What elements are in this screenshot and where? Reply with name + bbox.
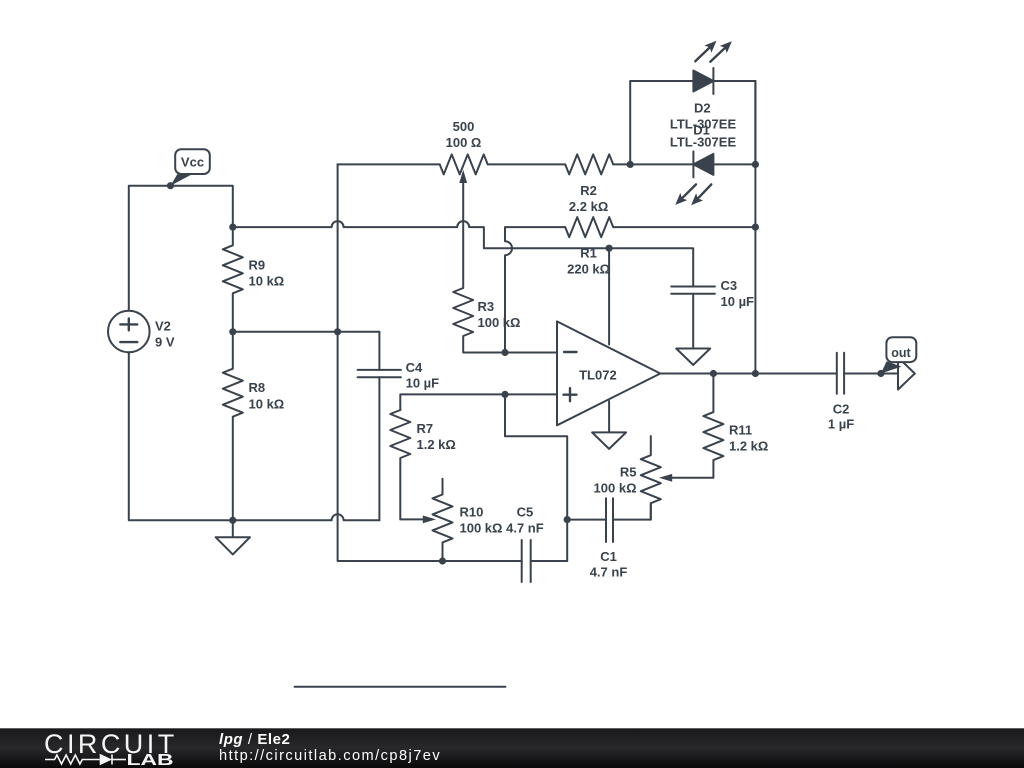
resistor R2 (565, 154, 613, 174)
svg-text:1.2 kΩ: 1.2 kΩ (729, 439, 768, 454)
wire right feedback vertical (754, 81, 756, 374)
svg-text:10 µF: 10 µF (721, 294, 755, 309)
potentiometer 500 100ohm (440, 154, 488, 288)
resistor R7 (390, 410, 410, 519)
CircuitLab logo (44, 729, 178, 768)
svg-text:100 Ω: 100 Ω (446, 135, 482, 150)
svg-text:R9: R9 (249, 257, 266, 272)
svg-text:R7: R7 (417, 421, 434, 436)
wire D2 branch (630, 81, 693, 164)
wire plus input (400, 394, 557, 410)
wire mid rail to C4 (233, 332, 380, 370)
svg-text:4.7 nF: 4.7 nF (590, 565, 628, 580)
svg-text:R11: R11 (729, 423, 752, 438)
footer bar (0, 728, 1024, 768)
svg-text:R8: R8 (249, 380, 266, 395)
voltage source V2 (108, 311, 150, 353)
node D junction left (627, 161, 634, 168)
svg-text:500: 500 (453, 119, 475, 134)
svg-text:C4: C4 (406, 360, 423, 375)
svg-text:TL072: TL072 (579, 368, 617, 383)
capacitor C5 (522, 540, 568, 582)
svg-text:R3: R3 (478, 299, 495, 314)
node ground junction (229, 517, 236, 524)
node R10 bottom junction (439, 557, 446, 564)
node feedback output junction (752, 370, 759, 377)
node mid rail x junction (334, 328, 341, 335)
node Vcc tap junction (167, 182, 174, 189)
svg-text:C1: C1 (600, 549, 617, 564)
resistor R1 (505, 217, 755, 352)
svg-text:R5: R5 (620, 465, 637, 480)
node R9/R8 mid junction (229, 328, 236, 335)
resistor R11 (703, 374, 723, 478)
node R1 right junction (752, 224, 759, 231)
svg-text:10 kΩ: 10 kΩ (249, 274, 285, 289)
svg-text:LAB: LAB (127, 752, 174, 768)
svg-text:C2: C2 (833, 402, 850, 417)
svg-text:R10: R10 (460, 505, 484, 520)
wire plus net down to C5/C1 (505, 394, 567, 561)
svg-text:1.2 kΩ: 1.2 kΩ (417, 437, 456, 452)
svg-text:4.7 nF: 4.7 nF (506, 521, 544, 536)
capacitor C4 (358, 370, 401, 520)
node R9 top junction (229, 224, 236, 231)
LED D1 (675, 151, 713, 205)
svg-text:100 kΩ: 100 kΩ (478, 315, 521, 330)
resistor R8 (223, 332, 243, 521)
potentiometer R10 (400, 479, 452, 561)
node D junction right (752, 161, 759, 168)
svg-text:Vcc: Vcc (181, 155, 204, 170)
divider line bottom (295, 686, 506, 688)
wire D2 right (713, 81, 755, 164)
wire op-amp output (660, 373, 837, 375)
node op-amp V+ junction (606, 245, 613, 252)
op-amp U1 TL072 (557, 248, 660, 449)
node out junction (877, 370, 884, 377)
wire bias elbow to pot line (338, 163, 440, 165)
resistor R3 (453, 288, 505, 353)
capacitor C1 (567, 498, 651, 542)
wire A bias net (233, 221, 693, 286)
wire minus input (505, 352, 557, 354)
wire R2 to D1 (613, 163, 693, 165)
svg-text:1 µF: 1 µF (828, 417, 854, 432)
svg-text:10 kΩ: 10 kΩ (249, 396, 285, 411)
wire bias vertical x=337.6 (338, 164, 342, 561)
svg-text:http://circuitlab.com/cp8j7ev: http://circuitlab.com/cp8j7ev (219, 748, 441, 764)
Vcc flag (171, 149, 210, 186)
wire pot to R2 (488, 163, 566, 165)
node plus input junction (501, 391, 508, 398)
svg-text:R2: R2 (580, 183, 597, 198)
node R11 top junction (710, 370, 717, 377)
node C1 branch junction (564, 516, 571, 523)
svg-text:C3: C3 (721, 278, 738, 293)
svg-text:V2: V2 (155, 319, 171, 334)
svg-text:R1: R1 (580, 246, 597, 261)
capacitor C2 (837, 353, 898, 394)
resistor R9 (223, 227, 243, 332)
wire bottom net to C5 (342, 560, 522, 562)
wire D1 right (713, 163, 755, 165)
svg-text:10 µF: 10 µF (406, 376, 440, 391)
svg-text:220 kΩ: 220 kΩ (567, 261, 610, 276)
potentiometer R5 (641, 436, 713, 519)
svg-text:9 V: 9 V (155, 334, 175, 349)
LED D2 (693, 41, 732, 94)
svg-text:2.2 kΩ: 2.2 kΩ (569, 199, 608, 214)
ground symbol main (216, 520, 250, 554)
wire V2 bottom (129, 352, 332, 520)
svg-text:100 kΩ: 100 kΩ (460, 521, 503, 536)
svg-text:D2: D2 (694, 101, 711, 116)
node minus input junction (501, 349, 508, 356)
svg-text:C5: C5 (517, 505, 534, 520)
capacitor C3 (671, 287, 715, 365)
svg-text:100 kΩ: 100 kΩ (594, 481, 637, 496)
wire ground rail hop over x=337.6 (332, 514, 380, 520)
svg-text:out: out (891, 346, 911, 360)
svg-text:lpg / Ele2: lpg / Ele2 (219, 731, 290, 748)
out flag (881, 337, 916, 373)
wire top Vcc rail (129, 186, 233, 311)
out port triangle (898, 357, 915, 389)
svg-text:LTL-307EE: LTL-307EE (670, 135, 737, 150)
